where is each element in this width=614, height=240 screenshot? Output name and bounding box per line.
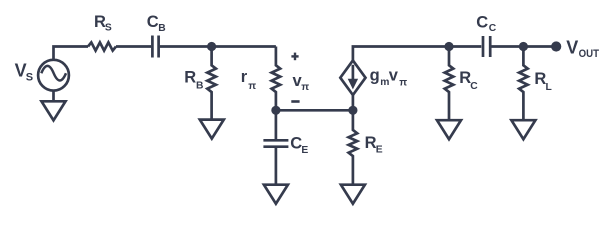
svg-text:B: B (158, 23, 165, 34)
svg-text:B: B (196, 80, 203, 91)
svg-text:R: R (184, 69, 196, 87)
svg-text:V: V (566, 38, 578, 58)
svg-text:r: r (241, 68, 248, 86)
svg-text:R: R (365, 134, 377, 152)
svg-text:g: g (370, 67, 380, 85)
svg-text:E: E (376, 144, 383, 155)
svg-text:v: v (389, 67, 399, 85)
svg-text:OUT: OUT (579, 48, 600, 60)
svg-text:L: L (546, 82, 552, 93)
svg-text:π: π (301, 82, 309, 93)
svg-text:C: C (489, 23, 497, 34)
svg-text:S: S (26, 72, 33, 84)
svg-text:S: S (105, 23, 112, 34)
svg-text:π: π (399, 78, 407, 89)
svg-text:C: C (290, 135, 302, 153)
svg-text:C: C (470, 81, 478, 92)
svg-text:C: C (476, 14, 488, 32)
svg-text:E: E (301, 145, 308, 156)
svg-text:C: C (147, 13, 159, 31)
svg-text:π: π (248, 81, 256, 92)
